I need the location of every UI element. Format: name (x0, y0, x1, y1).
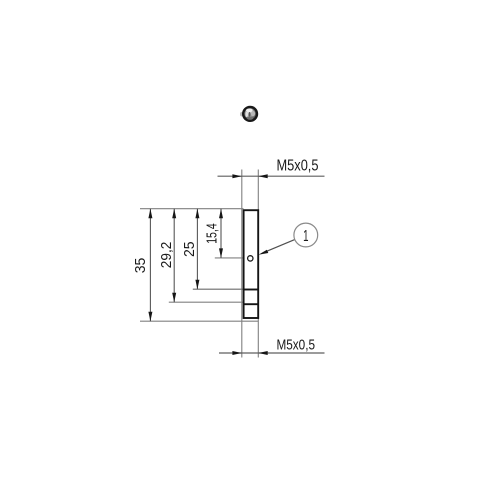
svg-text:35: 35 (132, 258, 149, 274)
body divider at thread end (244, 289, 259, 291)
svg-text:M5x0,5: M5x0,5 (277, 158, 319, 175)
leader line from balloon to LED (266, 240, 295, 252)
svg-text:15,4: 15,4 (204, 223, 221, 244)
top callout right arrow (258, 174, 267, 178)
extension line: dim 25 bottom (horizontal) (193, 288, 244, 290)
svg-text:M5x0,5: M5x0,5 (277, 336, 316, 353)
sensor body outline (threaded barrel) (244, 210, 259, 318)
dimension line 35 (148, 209, 152, 322)
product photo icon (sensor top view) (240, 106, 258, 122)
balloon circle 1 (294, 223, 318, 247)
bottom callout right arrow (258, 351, 267, 355)
bottom thread callout dimension line (219, 352, 325, 354)
dimension line 25 (195, 209, 199, 290)
body divider at connector start (244, 303, 259, 305)
dimension line 15,4 (219, 209, 223, 258)
svg-text:25: 25 (181, 241, 198, 257)
extension line: dim 35 bottom (horizontal) (140, 320, 258, 322)
LED node circle (248, 256, 253, 261)
bottom callout left arrow (232, 351, 241, 355)
extension line: thread OD left (vertical, full length) (241, 170, 243, 358)
leader arrowhead (258, 250, 268, 255)
extension line: dim 29,2 bottom (horizontal) (169, 301, 244, 303)
extension line: dim 15,4 bottom (horizontal, to LED) (215, 257, 248, 259)
extension line: thread OD right (vertical, full length) (257, 170, 259, 358)
svg-text:1: 1 (303, 228, 308, 245)
extension line: sensing face (top, horizontal) (140, 208, 244, 210)
top callout left arrow (232, 174, 241, 178)
svg-text:29,2: 29,2 (158, 242, 175, 269)
top thread callout dimension line (218, 175, 325, 177)
dimension line 29,2 (172, 209, 176, 303)
